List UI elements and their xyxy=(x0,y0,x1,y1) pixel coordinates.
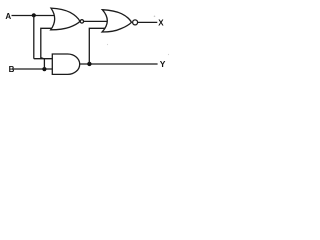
node A junction xyxy=(32,13,36,17)
op: NOR gate U2 body xyxy=(102,10,131,32)
svg-text:Y: Y xyxy=(160,59,166,69)
NOR2 output bubble xyxy=(133,20,138,25)
wire NOR2 output to X xyxy=(138,21,157,23)
wire A riser down xyxy=(33,16,35,59)
scan speck xyxy=(107,44,108,45)
wire B lead xyxy=(13,68,53,70)
wire B riser up to NOR1 input xyxy=(41,28,52,69)
scan speck xyxy=(154,15,156,17)
scan speck xyxy=(168,54,169,55)
NOR1 output bubble xyxy=(80,20,83,23)
node B junction xyxy=(42,67,46,71)
svg-text:A: A xyxy=(5,12,11,21)
svg-text:X: X xyxy=(158,19,164,28)
background xyxy=(0,0,177,83)
wire A lead xyxy=(12,15,55,17)
wire AND output to Y xyxy=(80,63,158,65)
wire Y riser up to NOR2 bottom input xyxy=(89,28,105,64)
wire A branch to AND top input xyxy=(34,58,53,60)
node Y junction xyxy=(87,62,91,66)
wire NOR1 output to NOR2 top input xyxy=(84,20,108,22)
op: NOR gate U1 body xyxy=(51,8,80,30)
op: AND gate U3 body xyxy=(52,54,79,74)
